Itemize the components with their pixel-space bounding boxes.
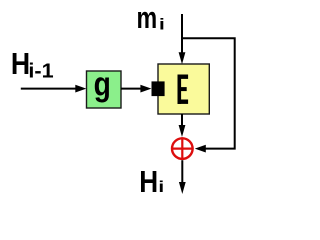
arrowhead into xor right: [195, 145, 206, 153]
wire feed-forward branch (right): [182, 38, 235, 148]
svg-text:i: i: [158, 177, 164, 195]
svg-text:m: m: [137, 0, 158, 35]
arrowhead into E top: [179, 52, 186, 64]
svg-text:g: g: [94, 65, 111, 103]
node H_{i-1} label: [11, 47, 30, 81]
wire E to xor: [181, 114, 183, 126]
node H_i label: [139, 165, 158, 199]
label E: [178, 75, 189, 104]
svg-text:i-1: i-1: [28, 60, 53, 82]
wire m_i down into E: [181, 14, 183, 54]
wire H_{i-1} to g: [21, 88, 77, 90]
block g: [87, 71, 122, 108]
arrowhead into xor top: [179, 125, 186, 137]
wire g to E: [121, 88, 142, 90]
svg-text:H: H: [139, 165, 158, 199]
block E (cipher): [158, 64, 209, 114]
svg-text:H: H: [11, 47, 30, 81]
arrowhead into g: [75, 85, 86, 93]
label g: [94, 65, 111, 103]
xor gate (circle-plus): [171, 137, 194, 160]
key input square on E: [152, 81, 165, 96]
arrowhead into key square: [140, 85, 151, 93]
svg-text:i: i: [159, 15, 165, 33]
wire xor to output: [181, 160, 183, 183]
arrowhead output H_i: [179, 182, 186, 194]
node m_i label: [137, 0, 158, 35]
